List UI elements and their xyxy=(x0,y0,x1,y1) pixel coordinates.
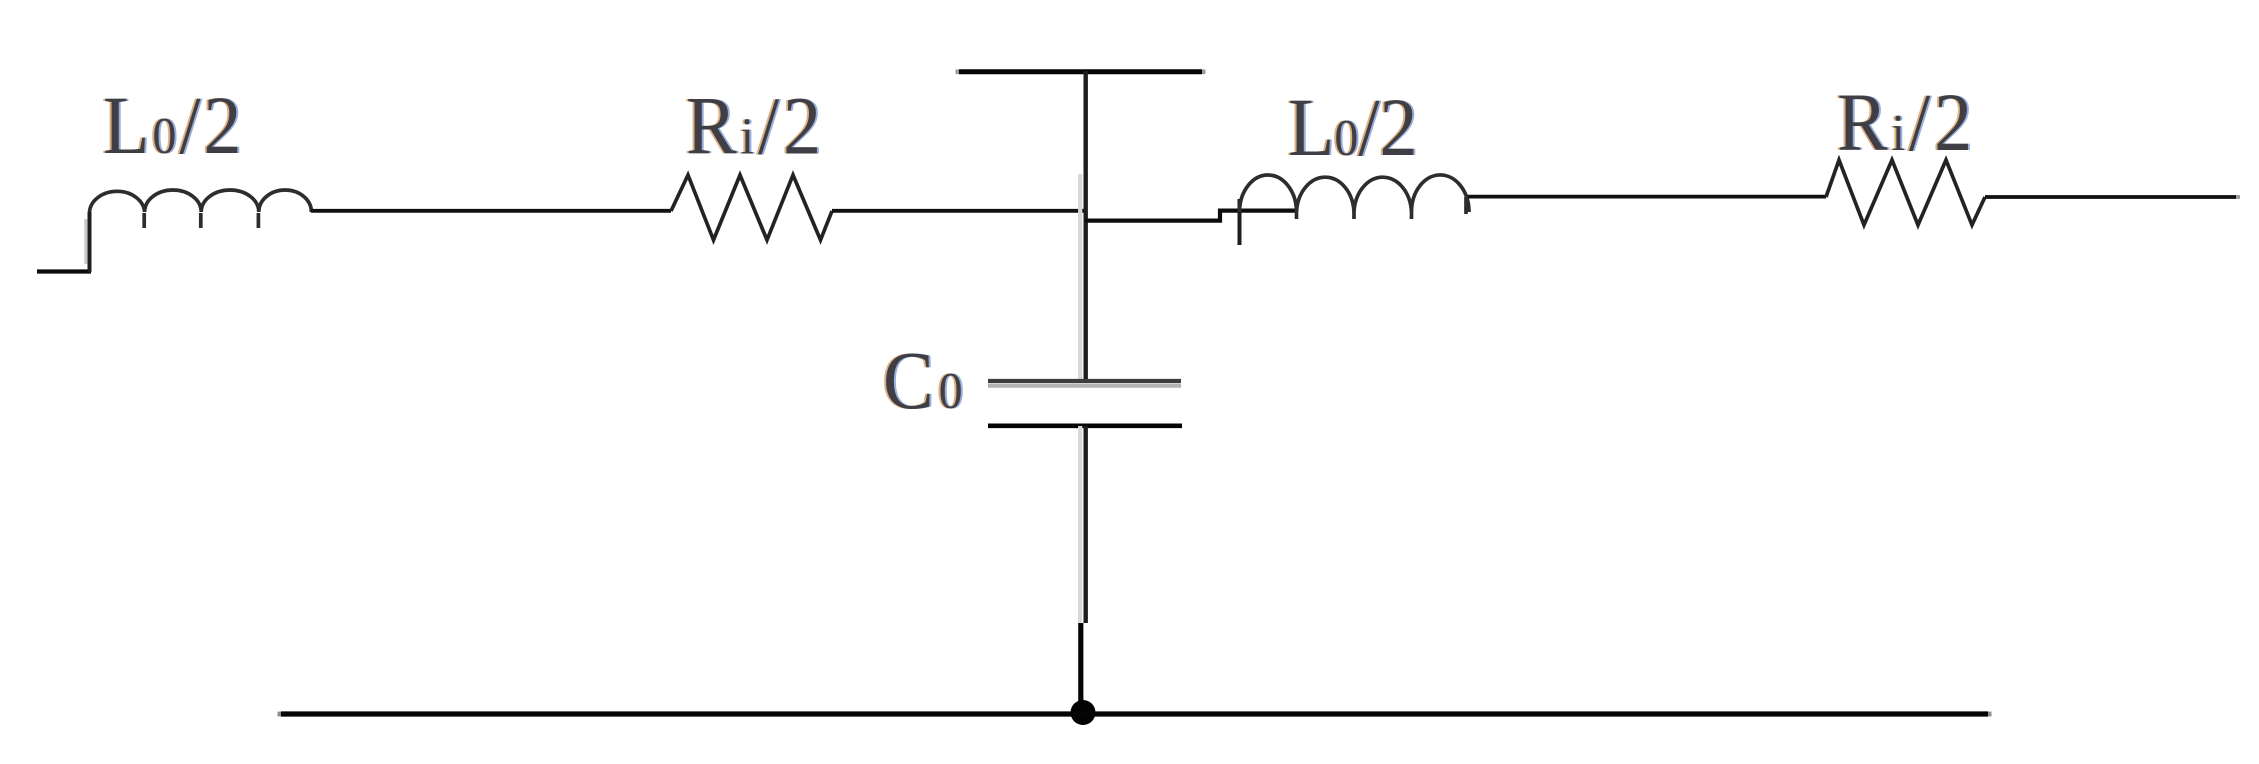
wire: lower vertical to bottom rail xyxy=(1078,623,1083,712)
label Ri/2 (left resistor value) xyxy=(684,81,827,173)
top terminal bar xyxy=(956,69,1206,74)
resistor R2 (Ri/2 right) zigzag xyxy=(1826,160,1985,225)
capacitor C0 bottom plate xyxy=(988,423,1182,428)
junction dot (node on bottom rail) xyxy=(1071,700,1096,725)
label Lo/2 (right inductor value) xyxy=(1286,82,1420,174)
wire: center node to right inductor xyxy=(1085,211,1297,221)
wire: center vertical upper (bar to capacitor top plate) xyxy=(1080,71,1086,380)
wire: resistor R1 to center node xyxy=(832,209,1086,213)
resistor R1 (Ri/2 left) zigzag xyxy=(671,175,832,240)
capacitor C0 top plate xyxy=(988,381,1181,386)
wire: left inductor left terminal vertical xyxy=(86,212,90,272)
inductor L2 (Lo/2 right) xyxy=(1240,175,1470,219)
inductor L1 (Lo/2 left) xyxy=(90,190,312,228)
wire: capacitor bottom plate to lower vertical xyxy=(1080,426,1086,623)
label Lo/2 (left inductor value) xyxy=(101,80,247,172)
inductor L2 (Lo/2 right) left terminal descender xyxy=(1238,199,1242,245)
wire: resistor R2 to right edge xyxy=(1985,195,2240,199)
wire: inductor L2 to resistor R2 xyxy=(1468,195,1826,199)
label C0 (capacitor value) xyxy=(881,335,970,427)
wire: inductor L1 to resistor R1 xyxy=(311,209,671,213)
wire: left input stub xyxy=(37,269,91,273)
label Ri/2 (right resistor value) xyxy=(1835,77,1978,169)
bottom rail wire xyxy=(278,711,1992,716)
